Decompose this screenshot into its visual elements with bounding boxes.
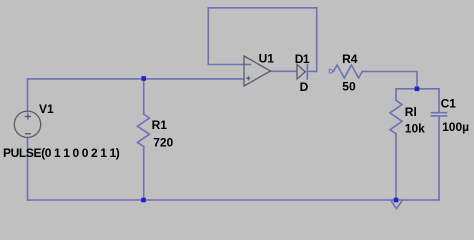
svg-text:PULSE(0 1 1 0 0 2 1 1): PULSE(0 1 1 0 0 2 1 1) (3, 146, 120, 160)
svg-text:R4: R4 (342, 52, 358, 66)
svg-text:Rl: Rl (405, 105, 417, 119)
svg-text:50: 50 (342, 79, 356, 93)
svg-text:D1: D1 (295, 52, 310, 66)
svg-text:R1: R1 (152, 118, 168, 132)
svg-text:U1: U1 (259, 51, 275, 65)
svg-text:720: 720 (153, 136, 173, 150)
svg-text:D: D (300, 80, 309, 94)
svg-text:100µ: 100µ (442, 120, 469, 134)
svg-text:V1: V1 (39, 102, 54, 116)
svg-text:10k: 10k (405, 121, 425, 135)
svg-text:C1: C1 (441, 97, 457, 111)
